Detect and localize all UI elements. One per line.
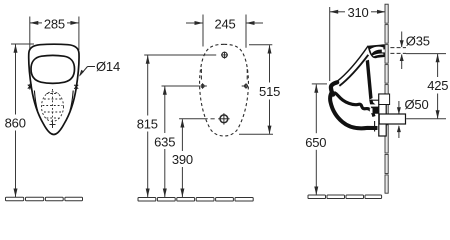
svg-text:245: 245 [214, 17, 235, 32]
dim 285 extension line left [29, 17, 31, 51]
dim 635 vertical line [164, 86, 166, 133]
dashed egg outline [200, 44, 249, 136]
urinal side: top rear block [368, 44, 385, 58]
floor tiles right view [308, 195, 382, 199]
fixing hole mark right [74, 84, 78, 90]
Ø35 arrow stems [401, 32, 403, 48]
drain bottom cross [50, 122, 56, 128]
urinal inner rim ellipse [31, 55, 75, 83]
rear vertical band [366, 60, 373, 100]
floor tiles middle view [138, 198, 253, 202]
tick top hole (y=55) [144, 54, 216, 56]
svg-text:285: 285 [44, 17, 65, 32]
dim 650 arrowheads [314, 84, 318, 93]
dim 650 vertical line [315, 84, 317, 133]
svg-text:650: 650 [305, 135, 326, 150]
svg-text:Ø14: Ø14 [96, 59, 120, 74]
tick bottom hole (y=118.5) [179, 118, 208, 120]
outer bottom curve [330, 93, 377, 129]
dim 285 extension line right [78, 17, 80, 51]
drain inner texture [43, 89, 63, 128]
tick side holes (y=86) [162, 85, 200, 87]
dim 310 extension line [329, 7, 331, 81]
trap white slot horizontal [368, 104, 378, 106]
dim 515 arrowheads [268, 45, 272, 54]
dim 650 top tick [312, 83, 327, 85]
dim 635 arrowheads [163, 86, 167, 95]
svg-text:635: 635 [154, 134, 175, 149]
svg-text:390: 390 [172, 152, 193, 167]
dim 245 extension line left [202, 15, 204, 47]
top rear block white channel [370, 47, 383, 54]
svg-text:Ø50: Ø50 [405, 97, 429, 112]
Ø35 arrowheads [400, 40, 404, 47]
leader for Ø14 [80, 67, 95, 76]
top hole crosshair [221, 52, 228, 59]
dim 390 arrowheads [180, 119, 184, 128]
trap white slot vertical [370, 108, 373, 113]
outlet flange [379, 94, 386, 136]
dim 245 extension line right [245, 15, 247, 48]
wall tiles [385, 4, 388, 193]
side hole cross right [242, 69, 248, 89]
left side slot [34, 91, 37, 112]
dim 310 dimension line [330, 11, 345, 13]
dim 860 top tick [11, 43, 34, 45]
dim 515 bottom tick [239, 133, 273, 135]
dim 515 top tick [249, 44, 272, 46]
dim 515 vertical line [269, 45, 271, 82]
dim 425 arrowheads [436, 54, 440, 63]
dim 815 vertical line [147, 56, 149, 116]
rim top surface band lower line [339, 55, 368, 86]
leader arrowhead Ø14 [79, 70, 84, 77]
svg-text:860: 860 [5, 116, 26, 131]
floor tiles left view [6, 197, 83, 201]
drain dashed oval [42, 92, 64, 122]
Ø50 extension line [406, 118, 446, 120]
bottom hole crosshair [218, 113, 229, 124]
trap block [369, 100, 379, 114]
right side slot [70, 91, 73, 112]
housing box [379, 94, 390, 105]
Ø50 arrow stems [398, 101, 400, 114]
svg-text:515: 515 [259, 84, 280, 99]
dim 860 arrowheads [14, 44, 18, 53]
Ø50 pipe [379, 114, 405, 124]
Ø35 pipe dashed [390, 48, 406, 54]
svg-text:Ø35: Ø35 [406, 34, 430, 49]
flange lower stub [374, 121, 376, 132]
svg-text:815: 815 [137, 117, 158, 132]
svg-text:310: 310 [347, 5, 368, 20]
inlet notch white [382, 49, 385, 52]
Ø35 extension/centre line [406, 53, 446, 55]
dim 245 tails [186, 22, 203, 24]
front lip [331, 82, 337, 94]
dim 285 arrowheads [14, 21, 79, 197]
svg-text:425: 425 [427, 78, 448, 93]
dim 425 vertical line [437, 54, 439, 77]
dim 815 arrowheads [146, 55, 150, 64]
dim 860 vertical line [15, 45, 17, 115]
dim 245 arrowheads [146, 21, 272, 197]
dim 285 dimension line [30, 22, 42, 24]
dim 310 arrowheads [314, 10, 439, 195]
urinal front outer outline [29, 44, 79, 134]
Ø50 arrowheads [397, 107, 401, 114]
rim top surface band upper line [337, 46, 369, 82]
dim 390 vertical line [181, 119, 183, 151]
side hole cross left [201, 69, 207, 89]
inner bowl curve with trap wave [334, 93, 374, 117]
fixing hole mark left [28, 84, 32, 90]
housing line [371, 99, 379, 101]
